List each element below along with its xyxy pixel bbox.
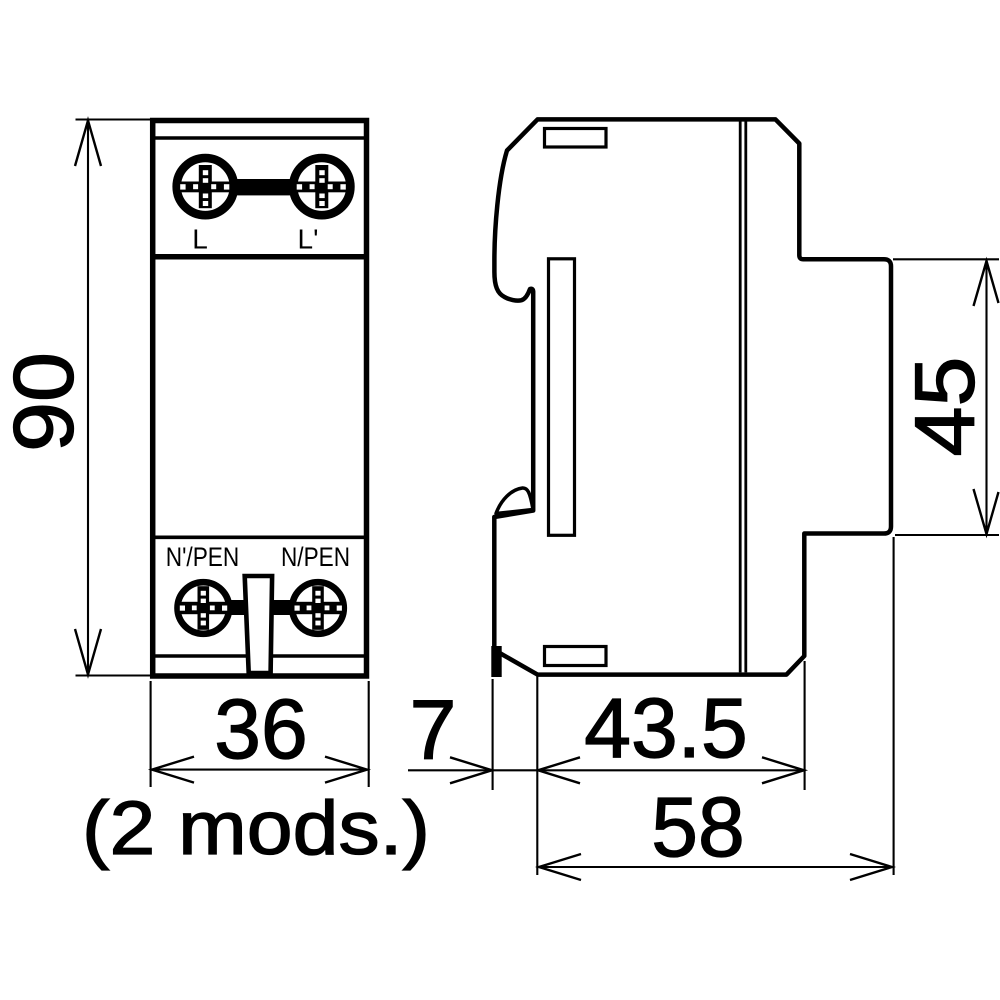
terminal screw L' [293,158,350,215]
45 extension lines [893,258,999,260]
terminal screw L [177,158,234,215]
tall side slot [549,259,575,536]
36 right arrow [325,757,367,783]
centre double line [739,121,742,672]
side view body outline [494,119,891,674]
terminal screw N'/PEN [178,582,230,634]
arrowheads [75,121,999,881]
36 left arrow [152,757,194,783]
bottom slot [545,647,607,666]
45 bottom arrow [974,489,999,534]
58 left arrow [539,854,581,880]
front face extension line [893,537,895,875]
jumper bar between top terminals [225,179,295,195]
36 extension lines [150,681,152,787]
clip release tab (black) [491,646,501,677]
43.5 extension line [804,661,806,790]
43.5 right arrow [762,757,804,783]
36 dimension line [151,769,368,771]
45 dimension line [985,261,987,535]
45 top arrow [974,261,999,306]
90 dimension line [87,121,89,675]
svg-text:L: L [192,224,208,255]
svg-text:45: 45 [898,357,992,457]
svg-text:(2 mods.): (2 mods.) [82,786,430,871]
front view body outline [153,121,367,677]
rail plane extension line [536,676,538,875]
7 / 43.5 dimension line [408,769,805,771]
front bottom foot line [155,654,364,658]
top slot [545,129,607,148]
svg-text:58: 58 [651,780,744,874]
front lower terminal divider [155,535,364,539]
58 dimension line [538,866,893,868]
svg-text:N/PEN: N/PEN [281,542,350,572]
svg-text:36: 36 [214,682,307,776]
svg-text:90: 90 [0,352,91,452]
svg-text:43.5: 43.5 [584,681,748,775]
svg-text:L': L' [298,224,319,255]
7 extension line [492,679,494,790]
front upper terminal divider [155,254,364,260]
90 top arrow [75,121,101,167]
7 right / 43.5 left arrow [538,757,580,783]
svg-text:N'/PEN: N'/PEN [166,542,240,572]
DIN clip spring fin [496,488,533,514]
centre slider tab [245,576,272,673]
stub bars to centre tab [225,600,247,615]
front top cap line [155,136,364,140]
58 right arrow [850,854,892,880]
90 bottom arrow [75,629,101,675]
svg-text:7: 7 [410,683,457,777]
7 left outside arrow [450,757,492,783]
90 extension lines [76,118,151,120]
terminal screw N/PEN [292,582,344,634]
